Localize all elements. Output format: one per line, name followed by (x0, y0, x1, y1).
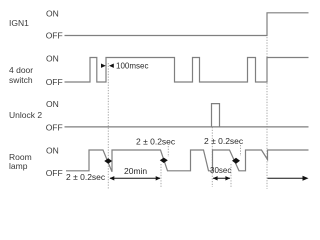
annotation arrow left (100msec) (109, 64, 114, 68)
svg-text:OFF: OFF (46, 122, 63, 132)
svg-text:100msec: 100msec (116, 62, 148, 71)
dashed guide line D2b at x=168.3 (167, 146, 169, 157)
svg-text:lamp: lamp (9, 161, 28, 171)
svg-text:20min: 20min (124, 166, 147, 176)
dashed guide line D3 at x=212.3 (211, 127, 213, 187)
wire Unlock 2 baseline (65, 126, 309, 128)
svg-text:OFF: OFF (46, 168, 63, 178)
dashed guide line D2a at x=161 (160, 164, 162, 187)
dashed guide line D4a at x=231 (230, 164, 232, 188)
dashed guide line D4b at x=240.5 (240, 145, 242, 156)
svg-text:ON: ON (46, 54, 59, 64)
wire IGN1 waveform (65, 13, 309, 36)
svg-text:ON: ON (46, 99, 59, 109)
svg-text:IGN1: IGN1 (9, 18, 29, 28)
annotation arrow right (100msec) (101, 64, 106, 68)
svg-text:4 door: 4 door (9, 65, 33, 75)
annotation diamond marker 3 (2 ± 0.2sec at 30sec end) (232, 158, 240, 164)
dashed guide line D1 at x=108 (107, 63, 109, 189)
svg-text:2 ± 0.2sec: 2 ± 0.2sec (66, 172, 106, 182)
wire Room lamp waveform (66, 150, 309, 172)
wire Unlock 2 pulse (212, 104, 220, 127)
svg-text:2 ± 0.2sec: 2 ± 0.2sec (204, 136, 244, 146)
svg-text:switch: switch (9, 75, 33, 85)
annotation time axis arrow bottom right (268, 177, 304, 179)
annotation 30sec measure arrow (213, 177, 230, 179)
svg-text:Unlock 2: Unlock 2 (9, 110, 42, 120)
annotation diamond marker 2 (2 ± 0.2sec at 20min end) (160, 158, 168, 163)
annotation diamond marker 1 (2 ± 0.2sec at first notch) (104, 158, 112, 164)
annotation 20min measure arrow (110, 177, 160, 179)
svg-text:ON: ON (46, 146, 59, 156)
svg-text:2 ± 0.2sec: 2 ± 0.2sec (136, 137, 176, 147)
wire 4 door switch waveform (65, 58, 309, 83)
svg-text:ON: ON (46, 9, 59, 19)
svg-text:30sec: 30sec (210, 166, 231, 175)
dashed guide line D5 at x=267 (266, 37, 268, 189)
svg-text:OFF: OFF (46, 77, 63, 87)
svg-text:OFF: OFF (46, 30, 63, 40)
